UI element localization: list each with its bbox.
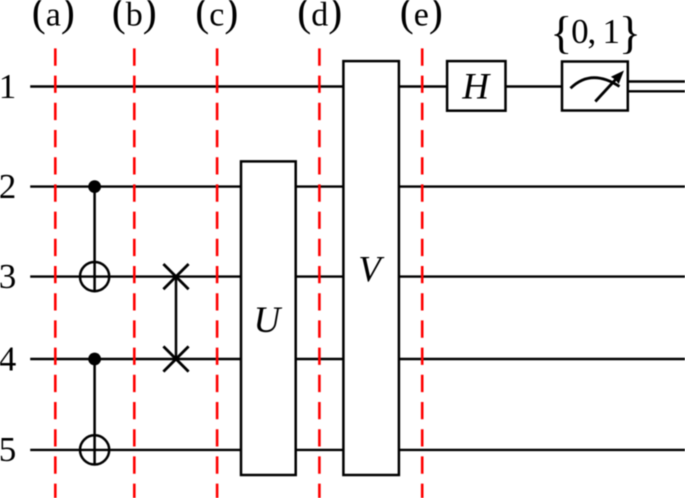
svg-text:(b): (b): [112, 0, 157, 36]
barrier line (c): [216, 48, 219, 498]
svg-text:1: 1: [0, 67, 16, 106]
SWAP gate between q3 and q4: [163, 264, 188, 372]
svg-text:(e): (e): [400, 0, 443, 36]
barrier line (b): [133, 48, 136, 498]
svg-text:U: U: [254, 300, 283, 341]
barrier line (d): [318, 48, 321, 498]
svg-text:(a): (a): [32, 0, 75, 36]
svg-text:4: 4: [0, 339, 16, 378]
wire q3: [30, 275, 685, 277]
svg-text:3: 3: [0, 257, 16, 296]
CNOT gate 1: control on q2, target on q3: [80, 180, 109, 291]
measurement meter box (q1): [562, 62, 628, 111]
svg-text:2: 2: [0, 167, 16, 206]
barrier line (e): [421, 48, 424, 498]
classical double wire after measurement: [628, 82, 685, 92]
svg-text:(c): (c): [195, 0, 238, 36]
barrier line (a): [54, 48, 57, 498]
svg-text:5: 5: [0, 430, 16, 469]
wire q4: [30, 358, 685, 360]
svg-text:{0, 1}: {0, 1}: [550, 7, 639, 58]
gate box H (q1): [447, 61, 505, 111]
gate box V (q1..q5): [343, 61, 399, 475]
wire q1: [30, 85, 562, 87]
gate box U (q2..q5): [241, 161, 296, 475]
CNOT gate 2: control on q4, target on q5: [80, 353, 109, 465]
svg-text:H: H: [461, 67, 491, 108]
wire q5: [30, 449, 685, 451]
svg-text:(d): (d): [297, 0, 342, 36]
wire q2: [30, 185, 685, 187]
